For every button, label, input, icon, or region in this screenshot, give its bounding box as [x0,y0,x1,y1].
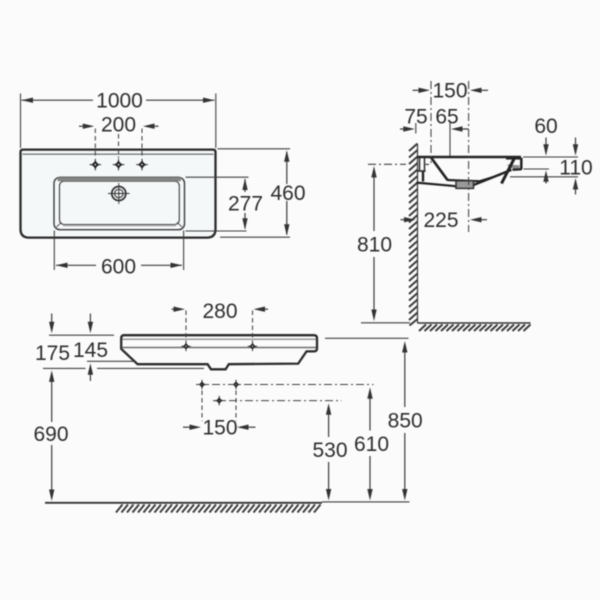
svg-text:1000: 1000 [96,90,143,113]
svg-text:850: 850 [388,410,423,433]
svg-text:690: 690 [33,423,68,446]
svg-text:150: 150 [432,80,467,103]
svg-text:460: 460 [270,182,305,205]
svg-text:60: 60 [534,115,557,138]
svg-text:810: 810 [357,233,392,256]
svg-text:225: 225 [423,209,458,232]
svg-text:75: 75 [404,105,427,128]
svg-text:110: 110 [559,157,592,180]
svg-text:145: 145 [73,339,108,362]
svg-text:610: 610 [354,433,389,456]
svg-text:175: 175 [35,342,70,365]
svg-text:65: 65 [435,105,458,128]
svg-text:150: 150 [202,417,237,440]
svg-text:530: 530 [312,439,347,462]
svg-text:200: 200 [101,114,136,137]
svg-text:600: 600 [101,255,136,278]
svg-text:280: 280 [202,300,237,323]
svg-text:277: 277 [228,193,263,216]
